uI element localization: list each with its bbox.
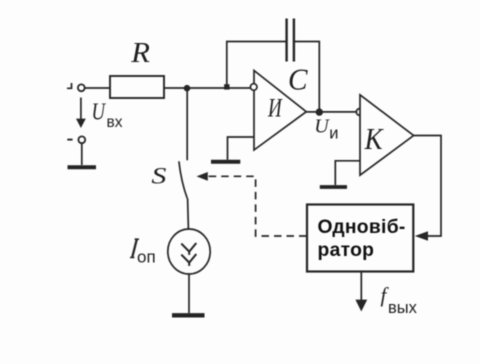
svg-text:вх: вх [107,114,123,131]
svg-text:U: U [314,116,330,138]
wire comparator output to one-shot [414,136,441,237]
current source chevrons [181,243,196,266]
ground comparator [320,185,347,189]
wire node to switch [186,88,188,160]
input arrow Uvx [80,98,82,120]
input polarity tick (+) [67,83,72,88]
node output junction [316,108,323,115]
svg-text:и: и [329,125,338,143]
wire one-shot output [360,272,362,301]
svg-text:ратор: ратор [318,240,375,261]
wire op-amp output to comparator [306,111,356,113]
arrowhead into one-shot [415,231,428,241]
wire comparator lower input to ground [335,161,360,185]
label Iоп (current source value) [132,239,137,257]
arrowhead output f [355,300,367,312]
wire terminal to resistor [85,87,110,89]
comparator K triangle [360,95,414,175]
ground current source [172,313,205,317]
one-shot block [307,205,413,272]
op-amp inverting input circle [250,84,257,91]
resistor R [110,76,164,98]
arrowhead Uvx [76,119,86,128]
svg-text:R: R [130,37,150,69]
node junction after resistor [184,85,191,92]
svg-text:K: K [364,121,385,156]
svg-text:оп: оп [137,247,156,266]
wire current source to ground [188,274,190,313]
input terminal bottom [78,136,85,143]
svg-text:U: U [92,99,107,126]
dashed control line [208,176,307,236]
ground input [68,165,97,169]
wire capacitor to output node [294,42,319,113]
wire bottom terminal to ground [81,143,83,165]
op-amp И integrator triangle [254,71,306,151]
svg-text:вых: вых [388,299,418,317]
svg-text:Одновіб-: Одновіб- [318,217,406,238]
wire resistor to op-amp input [164,87,251,89]
svg-text:И: И [267,94,282,123]
wire switch to current source [187,199,190,230]
ground op-amp [211,160,240,164]
wire feedback up and right [227,42,286,85]
current source Iоп circle [168,229,210,274]
svg-text:C: C [288,61,308,96]
capacitor C plates [287,19,294,62]
arrowhead control to switch [197,172,208,181]
input polarity tick (-) [67,139,72,141]
svg-text:S: S [151,164,167,189]
input terminal top [78,84,85,91]
wire op-amp noninverting input to ground [228,137,255,160]
comparator input circle [356,109,363,116]
switch S blade [179,161,187,198]
node junction feedback [224,84,229,89]
